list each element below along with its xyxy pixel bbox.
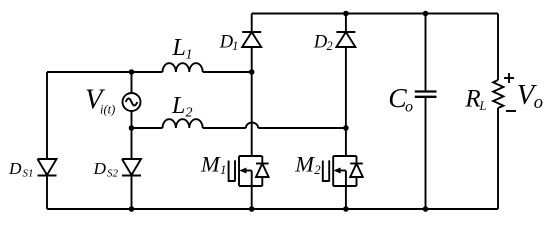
wire: right column top (RL upper lead) (497, 14, 499, 81)
svg-text:D: D (93, 159, 107, 178)
svg-text:L: L (172, 35, 186, 61)
svg-text:D: D (8, 159, 22, 178)
wire: top output bus (252, 13, 498, 15)
svg-text:L: L (171, 93, 185, 119)
junction: Co top bus node (423, 11, 429, 17)
M1 body arrow (244, 170, 252, 172)
M1 drain lead (251, 72, 253, 156)
M2 channel bar (332, 156, 334, 186)
label Co (388, 82, 413, 116)
M2 drain lead (345, 128, 347, 156)
svg-text:1: 1 (232, 39, 238, 53)
wire: top-left horizontal (input node to Vi) (47, 71, 132, 73)
wire: Vi upper lead (131, 72, 133, 93)
wire: Vi bottom node to L2 (132, 127, 163, 129)
M1 channel bar (238, 156, 240, 186)
label D1 (219, 33, 239, 53)
M1 source-channel horizontal (239, 185, 262, 187)
svg-text:M: M (294, 151, 315, 176)
M2 body arrow (338, 170, 346, 172)
wire: DS2 lower lead (131, 176, 133, 210)
wire: left branch below DS1 (46, 176, 48, 210)
wire: DS2 upper lead (131, 128, 133, 159)
wire: crossover hop over M1 drain line (246, 123, 258, 128)
label M1 (200, 151, 226, 177)
M2 source-channel horizontal (333, 185, 356, 187)
M1 source lead (251, 171, 253, 210)
M2 source lead (345, 171, 347, 210)
diode D1 (242, 14, 261, 73)
wire: Vi top node to L1 (132, 71, 163, 73)
M2 drain-channel horizontal (333, 155, 356, 157)
label output plus sign (504, 73, 514, 83)
label Vo (517, 80, 543, 113)
M2 body diode (356, 156, 358, 164)
inductor L2 (163, 119, 203, 128)
svg-text:2: 2 (314, 163, 321, 177)
label L2 (171, 93, 193, 121)
wire: hop to switching node B (258, 127, 346, 129)
junction: M1 source bus node (249, 206, 255, 212)
junction: DS2 bottom bus node (129, 206, 135, 212)
M2 gate bar (328, 160, 330, 181)
wire: L2 to crossover hop (203, 127, 246, 129)
M2 gate lead (323, 161, 329, 182)
label RL (464, 85, 486, 113)
junction: Vi bottom node (129, 125, 135, 131)
label Vi(t) (85, 85, 115, 117)
label L1 (172, 35, 193, 62)
junction: switching node B (L2/D2/M2) (343, 125, 349, 131)
diode DS2 (122, 159, 141, 176)
label output minus sign (506, 110, 516, 112)
transistor M2 (323, 128, 363, 209)
junction: D2 top bus node (343, 11, 349, 17)
svg-text:S2: S2 (107, 167, 119, 179)
inductor L1 (163, 63, 203, 72)
capacitor Co (415, 14, 437, 210)
M1 drain-channel horizontal (239, 155, 262, 157)
diode D2 (336, 14, 355, 129)
junction: Co bottom bus node (423, 206, 429, 212)
source Vi(t) (123, 93, 141, 111)
transistor M1 (229, 72, 269, 209)
wire: bottom return bus (47, 208, 498, 210)
svg-text:L: L (479, 99, 487, 113)
M1 body diode (261, 156, 263, 164)
svg-text:M: M (200, 151, 221, 176)
svg-text:1: 1 (186, 48, 193, 63)
M1 gate bar (234, 160, 236, 181)
wire: L1 to switching node A (203, 71, 252, 73)
svg-text:2: 2 (186, 106, 193, 121)
wire: left input branch vertical (46, 72, 48, 159)
svg-text:o: o (534, 93, 543, 113)
wire: Vi lower lead (131, 111, 133, 128)
label DS2 (93, 159, 119, 179)
svg-text:2: 2 (327, 39, 333, 53)
svg-text:1: 1 (220, 163, 226, 177)
junction: M2 source bus node (343, 206, 349, 212)
label D2 (313, 33, 333, 53)
label M2 (294, 151, 321, 177)
junction: switching node A (L1/D1/M1) (249, 69, 255, 75)
svg-text:R: R (464, 85, 480, 112)
label DS1 (8, 159, 34, 179)
junction: Vi top node (129, 69, 135, 75)
svg-text:o: o (405, 99, 413, 116)
wire: right column bottom (RL lower lead) (497, 108, 499, 209)
resistor RL (493, 80, 503, 108)
svg-text:i(t): i(t) (100, 103, 115, 117)
svg-text:S1: S1 (23, 167, 34, 179)
diode DS1 (38, 159, 57, 176)
M1 gate lead (229, 161, 235, 182)
